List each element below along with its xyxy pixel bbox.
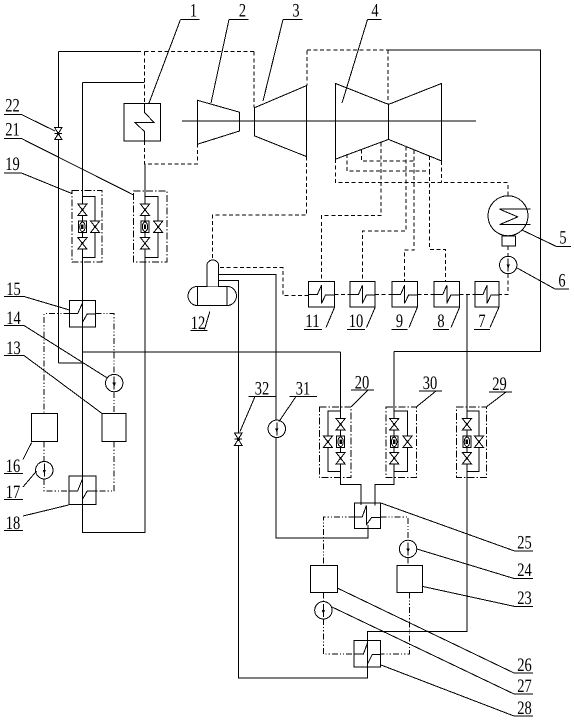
wire boiler outlet dashed below box (145, 141, 198, 164)
label 14 (4, 308, 107, 378)
wire extraction to heater 10 dashed (363, 146, 406, 281)
svg-text:1: 1 (190, 1, 197, 22)
wire hotwell to pump-6 dashed (507, 246, 509, 256)
wire heater 8-7 link (460, 294, 476, 296)
wire HX25 right to pump-24 dash-dot (380, 517, 408, 540)
heater 10 (350, 281, 375, 307)
wire IP exhaust riser dashed (306, 50, 308, 85)
svg-text:4: 4 (371, 1, 379, 22)
pump 27 (315, 602, 332, 619)
label 30 (417, 373, 443, 407)
wire heater drain line to group-29 and HX28 (368, 294, 467, 640)
pump 31 (268, 420, 285, 437)
heater 8 (434, 281, 459, 307)
wire extraction pair to heater 8 dashed (347, 154, 446, 281)
heater 11 (309, 281, 335, 307)
valve 22 (55, 128, 62, 140)
boiler 1 (124, 104, 160, 142)
valve 32 (235, 433, 242, 445)
label 6 (517, 268, 569, 292)
label 4 (342, 1, 382, 104)
turbine 4 (LP double flow) (336, 84, 442, 161)
pump 24 (399, 540, 416, 557)
wire LP exhaust to condenser dashed (336, 159, 508, 196)
label 22 (4, 96, 55, 132)
svg-text:9: 9 (396, 311, 403, 332)
label 2 (211, 1, 249, 104)
wire group-19 / HX15 / HX18 column (81, 82, 83, 476)
svg-text:19: 19 (5, 154, 20, 175)
wire pump-14 to box 13 dash-dot (113, 392, 115, 414)
label 12 (191, 312, 210, 335)
wire extraction to heater 11 dashed (322, 143, 381, 282)
box 23 (397, 566, 423, 593)
label 19 (4, 154, 72, 194)
label 20 (351, 373, 374, 407)
turbine 3 (IP) (255, 86, 307, 157)
pump 17 (36, 462, 53, 479)
valve group 29 (457, 407, 487, 478)
label 26 (338, 588, 533, 676)
label 13 (4, 338, 102, 414)
label 5 (522, 228, 571, 249)
wire boiler enclosure top dashed (145, 51, 254, 53)
label 28 (381, 665, 533, 719)
wire turbine shaft (182, 120, 476, 122)
heater 7 (475, 281, 499, 307)
wire valve-22 line to HX18 column (58, 362, 82, 364)
wire HX25 left to box 26 dash-dot (323, 517, 354, 566)
wire box26 to pump-27 dash-dot (322, 593, 324, 602)
svg-text:5: 5 (559, 228, 566, 249)
wire group-20 main line (341, 352, 361, 503)
wire boiler enclosure left dashed (144, 52, 146, 104)
wire feedwater header left segment (82, 351, 340, 353)
wire HX18 bottom loop to group-21 line (82, 164, 145, 533)
label 11 (304, 308, 335, 333)
label 3 (263, 1, 303, 102)
svg-text:7: 7 (478, 311, 485, 332)
wire pump-6 to heater 7 dashed (499, 274, 508, 294)
valve group 21 (134, 191, 168, 262)
label 17 (4, 471, 37, 503)
HX 18 (69, 476, 96, 505)
wire boiler enclosure right dashed (253, 52, 255, 108)
wire HX15 right to pump-14 dash-dot (95, 314, 114, 375)
box 26 (311, 566, 338, 593)
wire LP admission dashed (387, 50, 389, 104)
svg-text:11: 11 (305, 311, 320, 332)
svg-text:24: 24 (517, 560, 532, 581)
label 10 (347, 308, 375, 333)
wire heater 10-9 link (375, 294, 392, 296)
wire deaerator to pump-31 (219, 274, 368, 538)
label 32 (240, 379, 276, 432)
HX 28 (354, 640, 380, 667)
pump 14 (106, 374, 123, 391)
wire IP-LP crossover dashed top (307, 49, 388, 51)
wire box23 to HX28 dash-dot (381, 593, 410, 654)
label 18 (4, 505, 69, 534)
label 23 (422, 586, 533, 609)
label 24 (417, 549, 533, 581)
label 16 (4, 443, 32, 478)
wire extraction pair to heater 9 dashed (361, 150, 414, 282)
wire group-19 top horizontal (82, 81, 144, 83)
HX 15 (70, 301, 96, 327)
wire box13 to HX18 dash-dot (96, 442, 114, 491)
wire heater 9-8 link (417, 294, 434, 296)
svg-text:6: 6 (558, 271, 565, 292)
wire pump-27 to HX28 dash-dot (323, 619, 354, 654)
wire pump-17 to HX18 dash-dot (44, 479, 69, 491)
label 9 (392, 308, 418, 333)
HX 25 (354, 503, 380, 529)
label 27 (332, 607, 533, 697)
svg-text:3: 3 (292, 1, 299, 22)
label 7 (474, 308, 499, 333)
turbine 2 (HP) (198, 100, 240, 144)
wire crossover pipe top right (388, 50, 540, 352)
wire deaerator to valve-32 line (219, 280, 368, 678)
svg-text:2: 2 (239, 1, 246, 22)
svg-text:10: 10 (349, 311, 364, 332)
label 25 (380, 503, 533, 554)
box 16 (32, 414, 58, 442)
label 31 (279, 379, 317, 422)
label 15 (4, 279, 70, 310)
wire pump-24 to box 23 dash-dot (407, 558, 409, 566)
svg-text:22: 22 (5, 96, 20, 117)
wire main steam top-left horizontal (58, 51, 141, 53)
wire heater 11 drain to deaerator dashed (219, 268, 309, 296)
wire box16 to pump-17 dash-dot (43, 442, 45, 462)
label 29 (487, 374, 513, 407)
valve group 20 (320, 407, 352, 478)
heater 9 (392, 281, 417, 307)
wire group-30 main line (375, 352, 394, 503)
valve group 19 (72, 191, 102, 262)
valve group 30 (386, 407, 417, 478)
wire HX15 left to box 16 dash-dot (44, 314, 69, 414)
svg-text:8: 8 (437, 311, 444, 332)
box 13 (102, 414, 126, 442)
label 8 (433, 308, 460, 333)
wire turbine-3 exhaust to deaerator dashed (213, 157, 307, 260)
svg-text:21: 21 (5, 119, 20, 140)
label 1 (149, 1, 200, 104)
deaerator 12 (188, 260, 236, 306)
label 21 (4, 119, 134, 195)
wire valve-22 line vertical (57, 52, 59, 363)
pump 6 (500, 256, 517, 273)
condenser 5 (488, 196, 531, 246)
wire heater 11-10 link (335, 294, 350, 296)
